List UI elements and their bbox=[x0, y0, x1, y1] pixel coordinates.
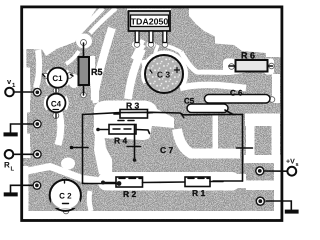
wire junction tick left bbox=[71, 147, 88, 149]
wire bottom right to R1 bbox=[213, 180, 243, 182]
pads IC pins bbox=[134, 42, 140, 48]
base copper field bbox=[22, 8, 281, 220]
white channels bbox=[20, 8, 281, 220]
svg-text:C1: C1 bbox=[52, 74, 63, 83]
capacitor C5 bbox=[184, 97, 233, 115]
channel NE of C1 bbox=[66, 51, 79, 64]
R6 white band bbox=[223, 59, 237, 75]
svg-text:R5: R5 bbox=[91, 67, 103, 77]
terminal RL bbox=[4, 150, 33, 173]
small white channels under IC pins bbox=[139, 45, 144, 55]
pads C4 bbox=[53, 88, 59, 94]
white pocket left of center (R4 pads down to R2 band) bbox=[94, 134, 112, 174]
capacitor C4 bbox=[47, 88, 66, 118]
board border bbox=[22, 7, 282, 221]
svg-text:C 2: C 2 bbox=[59, 192, 72, 201]
junction tick on long wire bbox=[181, 113, 185, 118]
resistor R1 bbox=[160, 177, 223, 198]
terminal +Vs right bbox=[265, 159, 299, 176]
svg-text:L: L bbox=[11, 166, 15, 173]
left margin gaps bbox=[23, 49, 26, 68]
U1 pin 3 bbox=[149, 31, 153, 43]
junction pad at mid wire end bbox=[133, 158, 137, 162]
node GND pad (input ground) bbox=[33, 120, 42, 129]
svg-text:C 3: C 3 bbox=[157, 70, 171, 80]
IC U1 TDA2050 bbox=[129, 11, 171, 31]
white wedge at R5 top pad bbox=[76, 34, 92, 49]
pad R5 bottom bbox=[81, 92, 87, 98]
capacitor C6 bbox=[205, 89, 271, 104]
pad R5 top bbox=[81, 40, 87, 46]
wire from C2 node to left vertical bbox=[83, 183, 120, 185]
strip right of R5 bbox=[92, 56, 96, 103]
svg-text:TDA2050: TDA2050 bbox=[131, 17, 169, 27]
white patch right of C1 bbox=[69, 74, 80, 88]
svg-text:R 6: R 6 bbox=[241, 51, 255, 61]
capacitor C3 bbox=[145, 55, 183, 93]
resistor R4 bbox=[96, 125, 149, 146]
fan channel 2 bbox=[90, 8, 116, 33]
node GND pad (speaker ground) bbox=[32, 181, 41, 190]
node RL output pad bbox=[33, 150, 42, 159]
pads C1 bbox=[43, 73, 49, 79]
bottom margin bbox=[28, 211, 277, 219]
svg-text:R: R bbox=[4, 161, 10, 170]
white strip below C5 bbox=[213, 115, 219, 158]
white arc over C3 bbox=[143, 53, 186, 85]
node GND pad (supply ground) bbox=[255, 196, 265, 206]
junction pad R2 left lead bbox=[101, 181, 105, 185]
U1 pin 1 bbox=[135, 31, 139, 43]
ground right lower bbox=[266, 201, 299, 214]
svg-text:C 7: C 7 bbox=[160, 145, 174, 155]
white halos around C1 / C4 bbox=[47, 71, 50, 86]
ring pads bbox=[32, 88, 265, 206]
channel between left tabs and C1 mass bbox=[36, 50, 39, 88]
svg-text:R 2: R 2 bbox=[123, 189, 137, 199]
ground left lower bbox=[4, 185, 36, 196]
small white pads on copper bbox=[43, 40, 275, 214]
channel C4 to center bbox=[58, 112, 61, 145]
svg-text:C 6: C 6 bbox=[230, 89, 243, 98]
pad C6 right bbox=[269, 97, 275, 103]
pads C2 bbox=[62, 178, 68, 184]
top-right white corner bbox=[189, 8, 281, 58]
scan speckle overlay bbox=[22, 8, 280, 218]
vertical white strip right bbox=[245, 114, 280, 127]
svg-text:s: s bbox=[296, 162, 299, 168]
svg-text:C5: C5 bbox=[184, 97, 195, 106]
resistor R2 bbox=[103, 177, 160, 199]
pads C3 bbox=[148, 69, 154, 75]
junction pad C2 wire end bbox=[117, 181, 122, 186]
capacitor C2 bbox=[50, 180, 81, 211]
svg-text:R 3: R 3 bbox=[126, 101, 140, 111]
wire right vertical (x=242.5) bbox=[242, 114, 244, 181]
wire top horizontal (input net across R3 to right) bbox=[83, 112, 243, 115]
resistor R6 bbox=[229, 51, 273, 72]
white pocket around R3/R4 bbox=[93, 101, 174, 141]
fan channel B (under IC to left) bbox=[95, 28, 112, 100]
fan channel C bbox=[128, 49, 142, 99]
wire mid vertical (R4 right lead down) bbox=[134, 125, 136, 160]
node V1 input pad bbox=[33, 88, 42, 97]
copper traces (gray) bbox=[22, 8, 281, 220]
white gap right of C2 in bottom band bbox=[89, 191, 91, 211]
terminal V1 bbox=[5, 77, 34, 96]
R1/R2 white band bbox=[98, 172, 240, 191]
fan channel 1 bbox=[74, 8, 103, 38]
junction tick on mid vertical bbox=[127, 146, 141, 148]
svg-text:R 1: R 1 bbox=[192, 188, 206, 198]
white blobs at pin pads bbox=[132, 41, 142, 49]
node +Vs supply pad bbox=[255, 166, 265, 176]
channels around C3 bbox=[181, 52, 251, 73]
svg-text:R 4: R 4 bbox=[114, 136, 128, 146]
svg-text:+V: +V bbox=[286, 159, 295, 166]
resistor R5 bbox=[79, 43, 103, 95]
resistor R3 bbox=[114, 101, 153, 121]
wire tick right vertical bbox=[237, 147, 253, 149]
U1 pin 5 bbox=[163, 31, 167, 43]
capacitor C1 bbox=[43, 68, 74, 88]
svg-text:C4: C4 bbox=[51, 100, 62, 109]
ground left upper bbox=[4, 124, 37, 136]
wire left vertical (x=82.5) bbox=[82, 115, 84, 184]
top-left white corner bbox=[22, 8, 97, 50]
right margin strips bbox=[272, 74, 280, 103]
pads R6 bbox=[229, 64, 235, 70]
C7 white channel bbox=[177, 129, 240, 154]
diagonal white channel above C2 bbox=[20, 167, 100, 182]
